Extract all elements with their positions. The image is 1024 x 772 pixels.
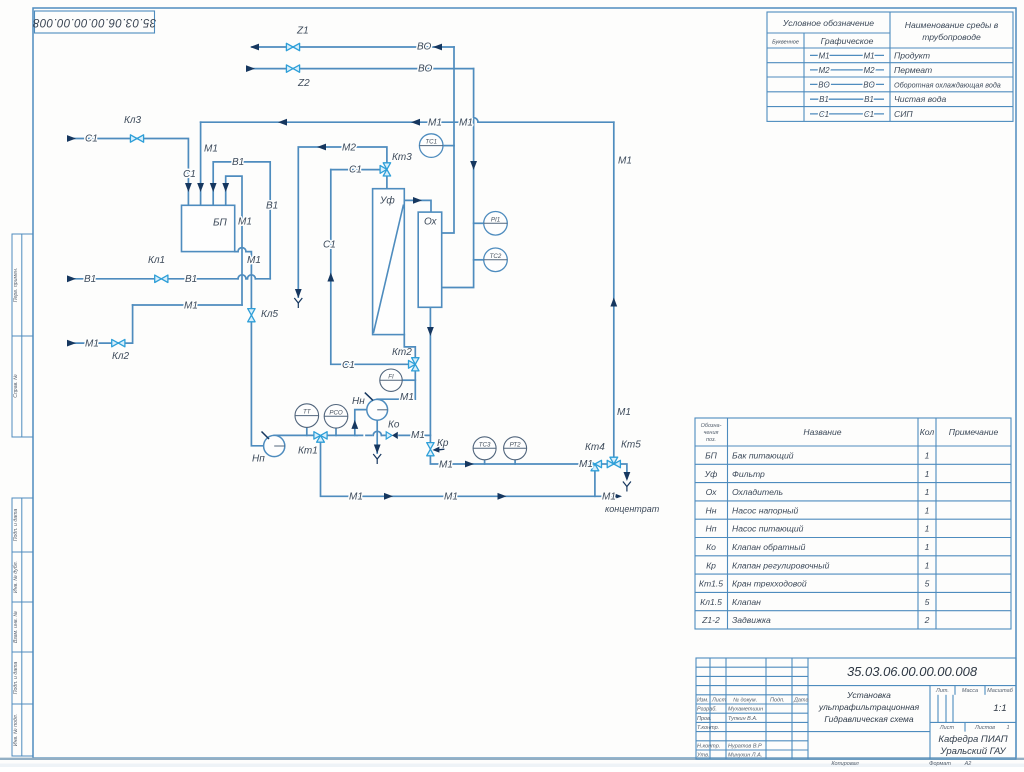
wire filter outlet to cooler top bbox=[404, 200, 431, 212]
valve Kt1 three-way bbox=[314, 432, 327, 443]
svg-text:С1: С1 bbox=[342, 360, 355, 371]
svg-text:М1: М1 bbox=[238, 217, 252, 228]
svg-text:Утв.: Утв. bbox=[696, 753, 710, 759]
wire C1 loop left side bbox=[331, 170, 408, 365]
svg-text:Задвижка: Задвижка bbox=[732, 615, 771, 625]
svg-text:№ докум.: № докум. bbox=[733, 698, 757, 704]
svg-text:РТ2: РТ2 bbox=[510, 441, 522, 448]
left margin stamp boxes bbox=[12, 234, 33, 756]
wire B1 upper line into tank bbox=[213, 162, 270, 279]
valve Kr regulating bbox=[427, 443, 445, 456]
svg-text:1: 1 bbox=[1006, 725, 1009, 731]
svg-text:Нуратов В.Р: Нуратов В.Р bbox=[728, 744, 762, 750]
svg-text:35.03.06.00.00.00.008: 35.03.06.00.00.00.008 bbox=[33, 16, 157, 28]
svg-text:БП: БП bbox=[705, 451, 718, 461]
svg-text:Кл1.5: Кл1.5 bbox=[700, 597, 722, 607]
svg-text:Лист: Лист bbox=[711, 698, 727, 704]
wire M1 inlet line bottom left bbox=[74, 305, 133, 343]
svg-text:Кл3: Кл3 bbox=[124, 115, 142, 126]
svg-text:С1: С1 bbox=[85, 134, 98, 145]
arrow pump drain down bbox=[374, 445, 381, 454]
svg-text:Изм.: Изм. bbox=[697, 698, 709, 704]
instrument TT bbox=[295, 404, 319, 428]
svg-text:ВО: ВО bbox=[418, 64, 432, 75]
svg-text:Мухаметшин: Мухаметшин bbox=[728, 707, 763, 713]
svg-text:М1: М1 bbox=[459, 118, 473, 129]
arrow cooler outlet down bbox=[427, 327, 434, 336]
wire M1 top header bbox=[201, 121, 614, 123]
valve Z1 bbox=[286, 43, 299, 50]
svg-text:Лит.: Лит. bbox=[935, 688, 949, 694]
wire BO riser from Z1 to cooler top bbox=[442, 47, 454, 233]
svg-text:ТС1: ТС1 bbox=[425, 139, 437, 146]
wire BO downcomer from Z2 to cooler bottom bbox=[442, 69, 474, 288]
arrow filter to cooler bbox=[413, 197, 422, 204]
svg-text:М1: М1 bbox=[400, 392, 414, 403]
wire PCO stem bbox=[335, 428, 337, 435]
drain symbol pump bbox=[373, 454, 381, 464]
valve Z2 bbox=[286, 65, 299, 72]
wire TC1 stem bbox=[443, 145, 454, 147]
instrument PT2 bbox=[504, 437, 527, 460]
svg-text:Уф: Уф bbox=[704, 469, 718, 479]
svg-text:Насос питающий: Насос питающий bbox=[732, 524, 804, 534]
drain symbol concentrate bbox=[623, 482, 631, 492]
arrow B1 inlet bbox=[67, 275, 76, 282]
arrow M1 riser up bbox=[610, 298, 617, 307]
wire Kr outlet M1 run bbox=[430, 457, 587, 464]
instrument TC2 bbox=[484, 248, 508, 272]
svg-text:М1: М1 bbox=[818, 51, 829, 60]
svg-text:Кол: Кол bbox=[920, 427, 935, 437]
svg-text:М1: М1 bbox=[439, 459, 453, 470]
wire Kt2 top to filter bottom L bbox=[404, 335, 415, 358]
svg-text:Н.контр.: Н.контр. bbox=[697, 744, 720, 750]
instrument TC3 bbox=[473, 437, 496, 460]
svg-text:С1: С1 bbox=[349, 165, 362, 176]
arrow Z1 at corner bbox=[433, 44, 442, 51]
svg-text:Кл1: Кл1 bbox=[148, 255, 165, 266]
wire Nn pump bottom drain bbox=[376, 420, 378, 453]
svg-text:ультрафильтрационная: ультрафильтрационная bbox=[818, 702, 920, 712]
svg-text:FI: FI bbox=[388, 373, 394, 380]
svg-text:Клапан регулировочный: Клапан регулировочный bbox=[732, 560, 830, 570]
svg-text:Z1: Z1 bbox=[296, 26, 309, 37]
svg-text:С1: С1 bbox=[864, 110, 874, 119]
svg-text:Условное обозначение: Условное обозначение bbox=[782, 18, 874, 28]
svg-text:Ох: Ох bbox=[424, 217, 438, 228]
svg-text:Кл2: Кл2 bbox=[112, 351, 130, 362]
wire B1 inlet bottom line bbox=[74, 278, 270, 280]
svg-text:В1: В1 bbox=[864, 95, 874, 104]
svg-text:Тупкин В.А.: Тупкин В.А. bbox=[728, 716, 758, 722]
svg-text:Подп.: Подп. bbox=[770, 698, 785, 704]
svg-text:концентрат: концентрат bbox=[605, 504, 660, 514]
svg-text:ВО: ВО bbox=[417, 42, 431, 53]
svg-text:Ко: Ко bbox=[706, 542, 716, 552]
svg-text:ТС3: ТС3 bbox=[479, 441, 491, 448]
wire Kt1 to Nn suction branch bbox=[328, 434, 357, 436]
svg-text:Подп. и дата: Подп. и дата bbox=[13, 662, 19, 695]
filter UF bbox=[373, 189, 405, 335]
svg-text:М1: М1 bbox=[184, 301, 198, 312]
wire tank bottom outlet bbox=[235, 252, 264, 446]
arrow concentrate drain bbox=[624, 472, 631, 481]
svg-text:ВО: ВО bbox=[818, 80, 829, 89]
svg-text:М1: М1 bbox=[602, 492, 616, 503]
arrow M1 header mid bbox=[411, 119, 420, 126]
svg-text:В1: В1 bbox=[185, 274, 197, 285]
svg-text:М1: М1 bbox=[85, 339, 99, 350]
wire FI stem bbox=[402, 379, 415, 381]
svg-text:1: 1 bbox=[925, 451, 930, 461]
arrow M1 bottom run 2 bbox=[498, 493, 507, 500]
svg-text:Нн: Нн bbox=[706, 505, 717, 515]
svg-text:Название: Название bbox=[803, 427, 841, 437]
wire Np pump outlet to Kt1 bbox=[274, 434, 313, 436]
wire cooler bottom outlet bbox=[429, 307, 431, 442]
svg-text:Фильтр: Фильтр bbox=[732, 469, 765, 479]
svg-text:Подп. и дата: Подп. и дата bbox=[13, 509, 19, 542]
svg-text:Нн: Нн bbox=[352, 396, 365, 407]
svg-text:М1: М1 bbox=[349, 492, 363, 503]
svg-text:Масса: Масса bbox=[962, 688, 978, 694]
svg-text:Охладитель: Охладитель bbox=[732, 487, 783, 497]
svg-text:Дата: Дата bbox=[793, 698, 809, 704]
svg-text:М1: М1 bbox=[617, 407, 631, 418]
arrow Nn suction up bbox=[351, 420, 358, 429]
svg-text:Обозна-: Обозна- bbox=[701, 423, 722, 429]
wire M1 right riser bbox=[613, 122, 615, 456]
svg-text:Формат: Формат bbox=[929, 761, 951, 767]
svg-text:В1: В1 bbox=[232, 157, 244, 168]
wire M2 line from Kt3 to drain bbox=[298, 147, 387, 297]
wire hop of tank outlet over M1 vertical bbox=[238, 248, 246, 252]
svg-text:М2: М2 bbox=[818, 66, 830, 75]
svg-text:Установка: Установка bbox=[846, 690, 891, 700]
arrow Z1 outlet bbox=[250, 44, 259, 51]
legend table top right bbox=[767, 12, 1013, 121]
svg-text:Справ. №: Справ. № bbox=[13, 374, 19, 398]
svg-text:Нп: Нп bbox=[706, 524, 717, 534]
svg-text:Копировал: Копировал bbox=[831, 761, 858, 767]
svg-text:Насос напорный: Насос напорный bbox=[732, 505, 798, 515]
svg-text:35.03.06.00.00.00.008: 35.03.06.00.00.00.008 bbox=[847, 664, 978, 679]
svg-text:РI1: РI1 bbox=[491, 216, 500, 223]
svg-text:Перв. примен.: Перв. примен. bbox=[13, 268, 19, 302]
tank BP bbox=[182, 205, 235, 251]
svg-text:Кт2: Кт2 bbox=[392, 347, 412, 358]
svg-text:М2: М2 bbox=[342, 143, 356, 154]
wire Nn suction riser bbox=[355, 410, 367, 436]
arrow M1 header left bbox=[278, 119, 287, 126]
svg-text:Графическое: Графическое bbox=[821, 36, 874, 46]
svg-text:Кт1: Кт1 bbox=[298, 446, 318, 457]
instrument TC1 bbox=[419, 134, 443, 158]
svg-text:Примечание: Примечание bbox=[949, 427, 999, 437]
svg-text:Лист: Лист bbox=[939, 725, 955, 731]
svg-text:Клапан: Клапан bbox=[732, 597, 761, 607]
svg-text:Z2: Z2 bbox=[297, 78, 310, 89]
svg-text:5: 5 bbox=[925, 579, 930, 589]
arrows into tank bbox=[185, 183, 192, 192]
wire check valve to regulator junction bbox=[399, 434, 430, 436]
svg-text:ВО: ВО bbox=[863, 80, 874, 89]
valve Ko check bbox=[386, 432, 398, 439]
svg-text:СИП: СИП bbox=[894, 109, 913, 119]
wire C1 top to Kt3 bbox=[331, 169, 380, 171]
cooler Ox bbox=[418, 212, 442, 307]
wire Kt5 to concentrate drain bbox=[621, 464, 627, 478]
svg-text:Инв. № подл.: Инв. № подл. bbox=[13, 714, 19, 746]
valve Kl2 bbox=[112, 339, 125, 346]
svg-text:Взам. инв. №: Взам. инв. № bbox=[13, 611, 19, 643]
svg-text:Кр: Кр bbox=[437, 438, 449, 449]
wire M1 recirc into tank 4th stub bbox=[226, 176, 242, 305]
legend sample lines bbox=[810, 55, 884, 114]
svg-text:Кл5: Кл5 bbox=[261, 309, 279, 320]
wire TT stem bbox=[306, 427, 308, 435]
svg-text:Z1-2: Z1-2 bbox=[701, 615, 720, 625]
svg-text:Пермеат: Пермеат bbox=[894, 65, 932, 75]
svg-text:М1: М1 bbox=[579, 459, 593, 470]
svg-text:Кт1.5: Кт1.5 bbox=[699, 579, 723, 589]
svg-text:С1: С1 bbox=[323, 240, 336, 251]
arrow M1 mid run bbox=[465, 461, 474, 468]
svg-text:Чистая вода: Чистая вода bbox=[894, 94, 947, 104]
svg-text:трубопроводе: трубопроводе bbox=[922, 32, 981, 42]
valve Kl5 bbox=[248, 309, 255, 322]
svg-text:1: 1 bbox=[925, 487, 930, 497]
wire TC2 stem bbox=[474, 259, 484, 261]
svg-text:2: 2 bbox=[924, 615, 930, 625]
wire PT2 stem bbox=[514, 460, 516, 464]
wire TC3 stem bbox=[484, 460, 486, 464]
wire M1 bottom return line bbox=[321, 443, 620, 496]
wire M1 line from Kl2 riser bbox=[133, 304, 242, 306]
svg-text:1: 1 bbox=[925, 542, 930, 552]
svg-text:Уральский ГАУ: Уральский ГАУ bbox=[939, 746, 1006, 757]
svg-text:Разраб.: Разраб. bbox=[697, 707, 717, 713]
svg-text:Листов: Листов bbox=[974, 725, 995, 731]
svg-text:чения: чения bbox=[704, 430, 719, 436]
wire hop of M1 header over BO downcomer bbox=[469, 118, 478, 123]
svg-text:А2: А2 bbox=[964, 761, 972, 767]
wire C1 inlet line bbox=[74, 139, 188, 206]
instrument PI1 bbox=[484, 212, 508, 236]
svg-text:Кт3: Кт3 bbox=[392, 152, 412, 163]
wire PI1 stem bbox=[474, 222, 484, 224]
wire Kt4 branch down bbox=[594, 472, 596, 497]
svg-text:поз.: поз. bbox=[706, 437, 716, 443]
svg-text:Продукт: Продукт bbox=[894, 50, 930, 60]
svg-text:ТТ: ТТ bbox=[303, 409, 312, 416]
svg-text:Т.контр.: Т.контр. bbox=[697, 725, 719, 731]
svg-text:Ко: Ко bbox=[388, 420, 400, 431]
wire dashed drain line segment bbox=[357, 434, 385, 436]
arrow M1 bottom run 1 bbox=[384, 493, 393, 500]
svg-text:Пров.: Пров. bbox=[697, 716, 712, 722]
arrow C1 inlet bbox=[67, 135, 76, 142]
svg-text:Кт4: Кт4 bbox=[585, 442, 605, 453]
svg-text:М2: М2 bbox=[863, 66, 875, 75]
svg-text:Масштаб: Масштаб bbox=[987, 688, 1014, 694]
svg-text:Уф: Уф bbox=[379, 195, 395, 207]
svg-text:Кафедра ПИАП: Кафедра ПИАП bbox=[938, 734, 1007, 745]
valve Kt4 three-way bbox=[588, 460, 601, 471]
svg-text:1: 1 bbox=[925, 469, 930, 479]
valve Kl3 bbox=[130, 135, 143, 142]
svg-text:Минухин Л.А.: Минухин Л.А. bbox=[728, 753, 762, 759]
arrow M2 line bbox=[317, 144, 326, 151]
svg-text:1: 1 bbox=[925, 524, 930, 534]
svg-text:Ох: Ох bbox=[706, 487, 717, 497]
wire M1 drop to tank bbox=[200, 122, 202, 205]
svg-text:В1: В1 bbox=[84, 274, 96, 285]
arrow M1 bottom end bbox=[613, 493, 622, 500]
svg-text:Буквенное: Буквенное bbox=[772, 40, 799, 46]
svg-text:С1: С1 bbox=[183, 169, 196, 180]
valve Kl1 bbox=[155, 275, 168, 282]
svg-text:Кт5: Кт5 bbox=[621, 440, 641, 451]
svg-text:БП: БП bbox=[213, 218, 228, 229]
svg-text:Гидравлическая схема: Гидравлическая схема bbox=[824, 714, 913, 724]
arrow Z2 inlet bbox=[246, 65, 255, 72]
svg-text:Бак питающий: Бак питающий bbox=[732, 451, 794, 461]
svg-text:В1: В1 bbox=[819, 95, 829, 104]
valve Kt3 three-way bbox=[380, 163, 391, 176]
svg-text:М1: М1 bbox=[247, 255, 261, 266]
svg-text:ТС2: ТС2 bbox=[490, 253, 502, 260]
arrow C1 loop up bbox=[327, 273, 334, 282]
arrow BO downcomer bbox=[470, 161, 477, 170]
svg-text:М1: М1 bbox=[444, 492, 458, 503]
svg-text:М1: М1 bbox=[411, 430, 425, 441]
svg-text:РСО: РСО bbox=[329, 409, 343, 416]
arrow M2 drain bbox=[295, 289, 302, 298]
svg-text:М1: М1 bbox=[618, 156, 632, 167]
svg-text:М1: М1 bbox=[863, 51, 874, 60]
wire Kt3 to filter top bbox=[386, 177, 388, 189]
wire hops of B1 line over M1 verticals bbox=[238, 275, 255, 279]
svg-text:Нп: Нп bbox=[252, 454, 265, 465]
svg-text:1:1: 1:1 bbox=[993, 703, 1006, 714]
svg-text:С1: С1 bbox=[819, 110, 829, 119]
wire Z2 BO line bbox=[253, 68, 474, 70]
valve Kt5 three-way bbox=[607, 457, 620, 468]
arrow M1 inlet bbox=[67, 340, 76, 347]
svg-text:Наименование среды в: Наименование среды в bbox=[905, 20, 999, 30]
wire hop over pump drain bbox=[373, 431, 381, 435]
svg-text:5: 5 bbox=[925, 597, 930, 607]
instrument PCO bbox=[324, 405, 348, 429]
svg-text:М1: М1 bbox=[204, 144, 218, 155]
top-left inverted designation box bbox=[33, 11, 157, 33]
svg-text:Кран трехходовой: Кран трехходовой bbox=[732, 579, 807, 589]
wire Z1 BO line bbox=[252, 46, 454, 48]
svg-text:Оборотная охлаждающая вода: Оборотная охлаждающая вода bbox=[894, 80, 1001, 89]
svg-text:В1: В1 bbox=[266, 201, 278, 212]
svg-text:М1: М1 bbox=[428, 118, 442, 129]
svg-text:1: 1 bbox=[925, 560, 930, 570]
components table bbox=[695, 418, 1011, 629]
svg-text:1: 1 bbox=[925, 505, 930, 515]
wire Nn discharge up to Kt2 bbox=[377, 372, 415, 400]
instrument FI bbox=[380, 369, 402, 391]
drain symbol M2 bbox=[294, 298, 302, 308]
wire Kt4-Kt5 link bbox=[602, 463, 606, 465]
svg-text:Клапан обратный: Клапан обратный bbox=[732, 542, 806, 552]
valve Kt2 three-way bbox=[409, 358, 420, 371]
svg-text:Инв. № дубл.: Инв. № дубл. bbox=[13, 561, 19, 593]
pump Nn bbox=[365, 393, 388, 421]
title block bbox=[696, 658, 1016, 759]
pump Np bbox=[262, 432, 285, 457]
svg-text:Кр: Кр bbox=[706, 560, 716, 570]
